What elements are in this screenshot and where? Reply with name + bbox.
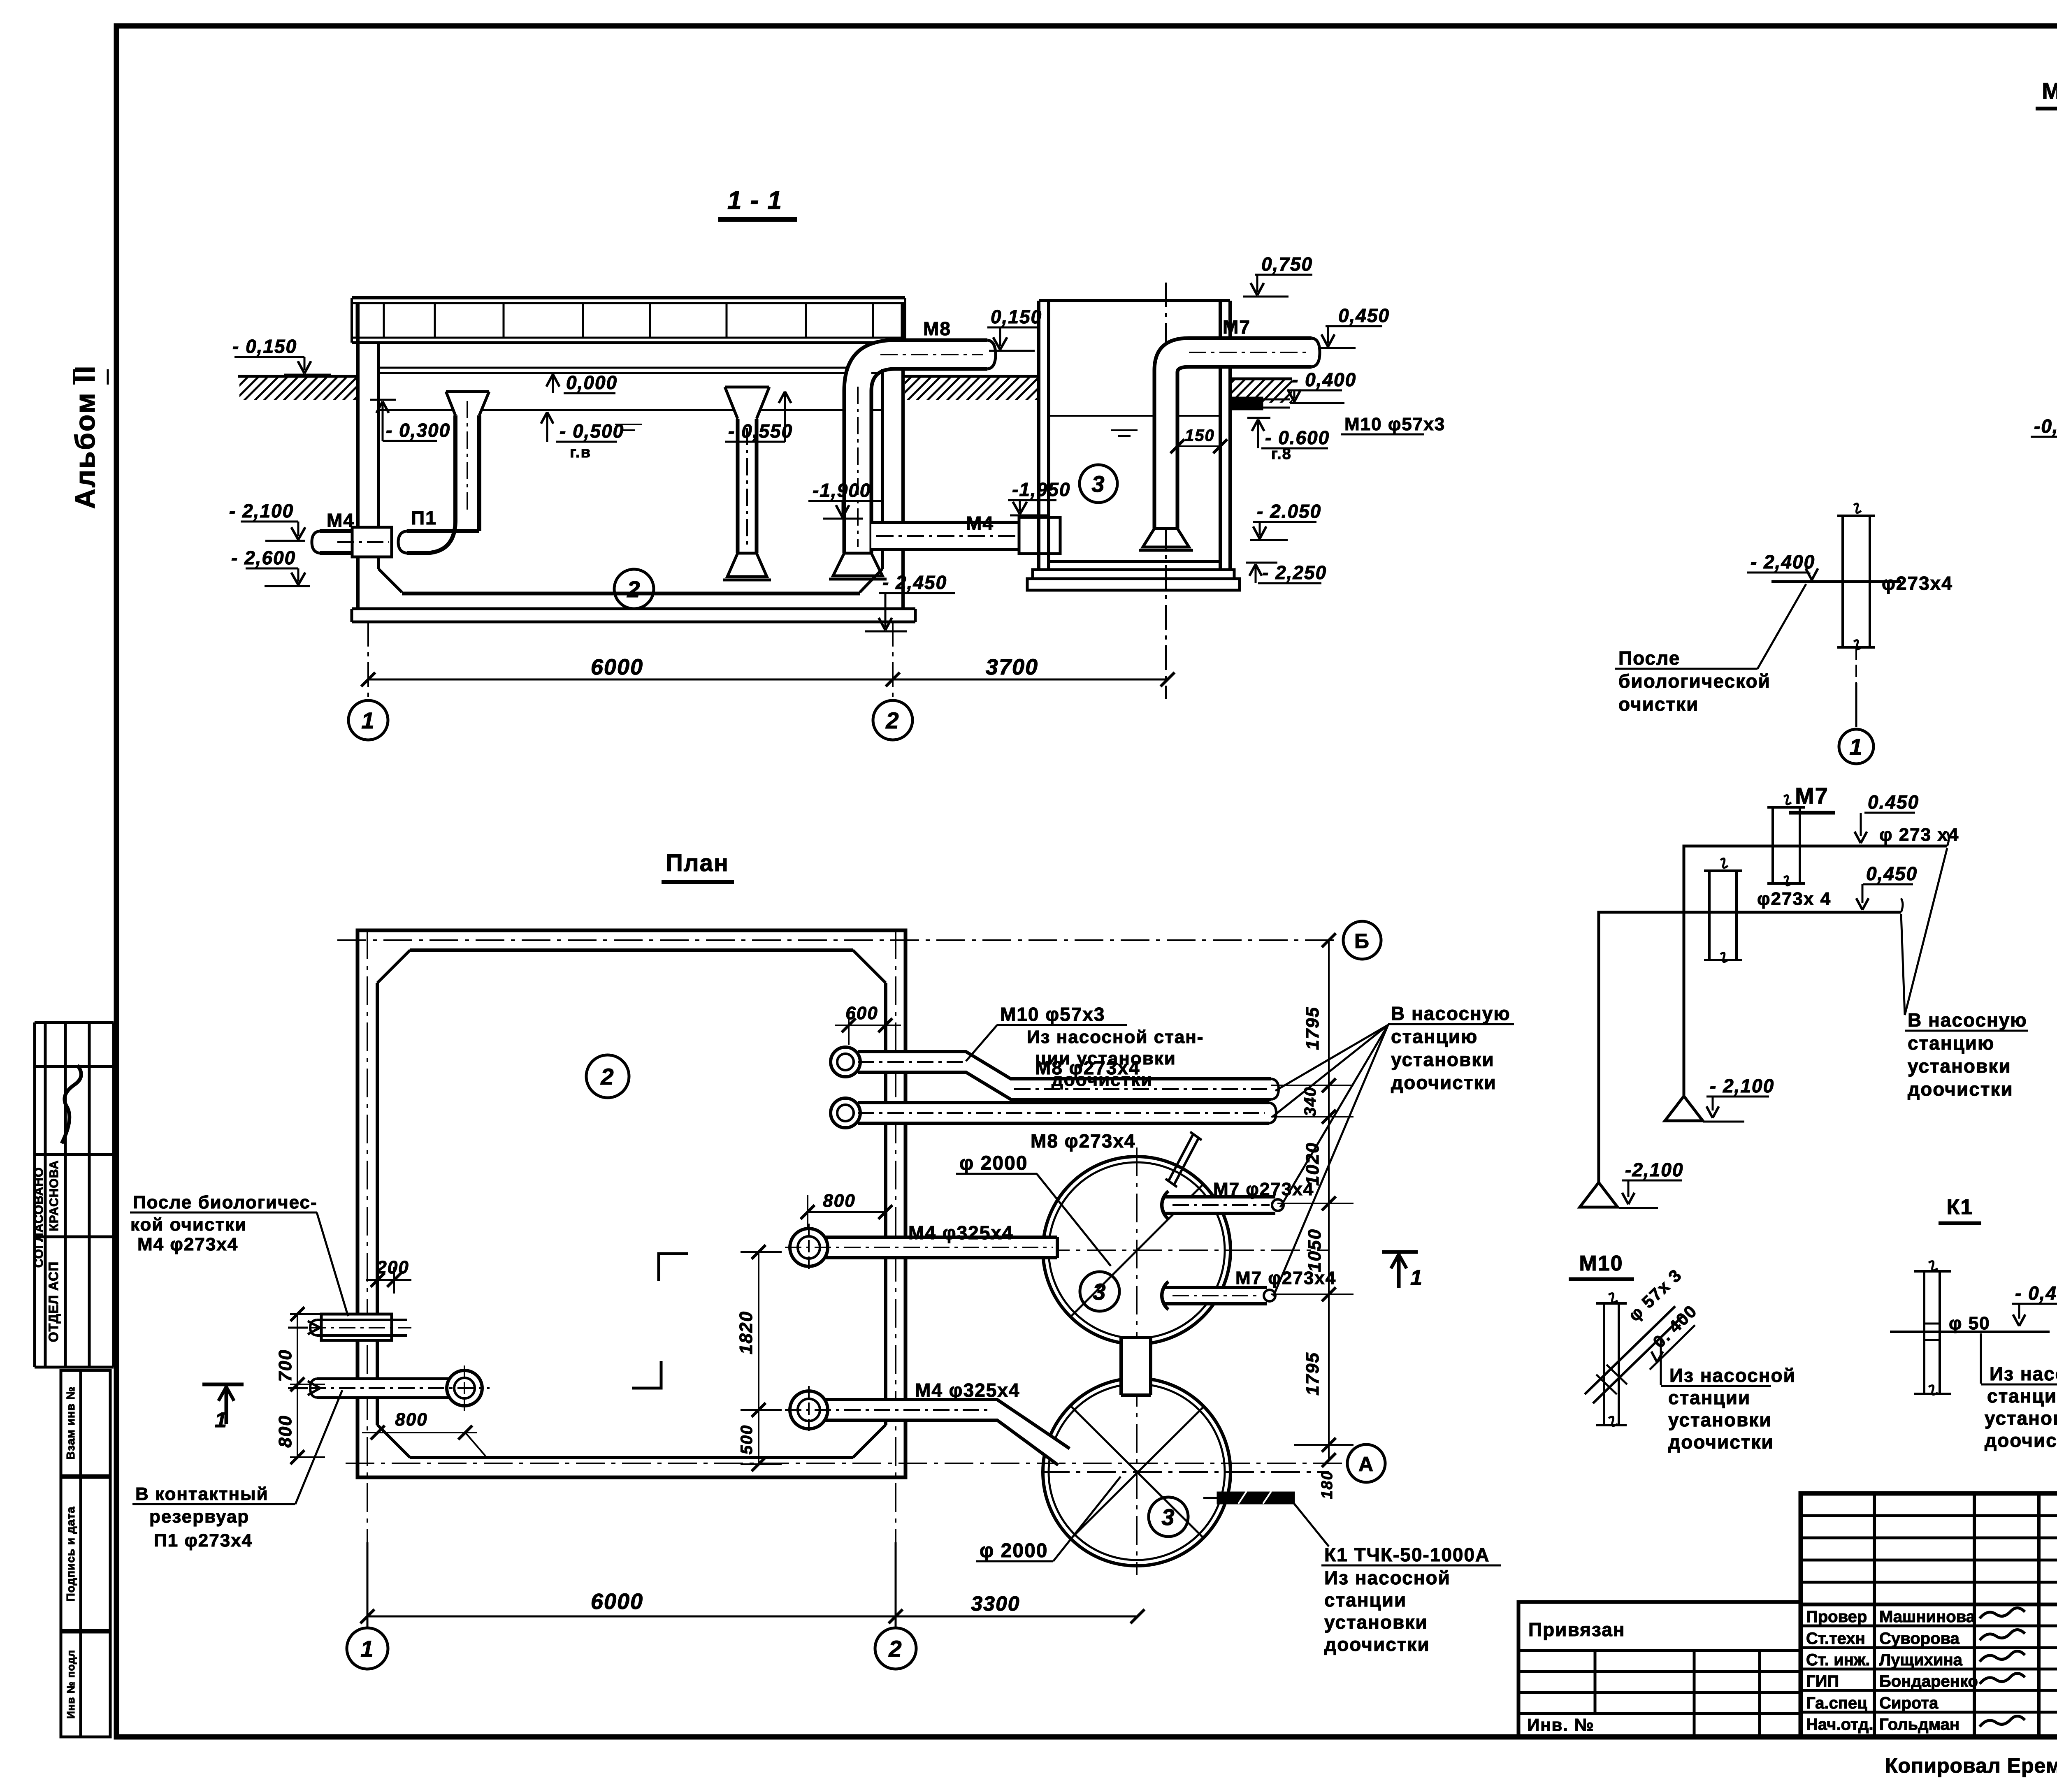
svg-text:0.450: 0.450 <box>1868 791 1919 813</box>
svg-text:500: 500 <box>738 1425 756 1455</box>
riser pipe М7 in tank 3 <box>1154 338 1312 529</box>
svg-text:Га.спец: Га.спец <box>1806 1694 1867 1712</box>
link to axis circle 1 <box>1855 647 1857 683</box>
svg-text:- 0,500: - 0,500 <box>560 420 624 442</box>
svg-text:После: После <box>1618 647 1680 669</box>
svg-text:М7: М7 <box>1223 316 1251 338</box>
svg-text:180: 180 <box>1319 1470 1336 1499</box>
short extension lines on right chain <box>1271 1085 1354 1086</box>
pipe М4 entering tank 2 at left <box>322 531 393 553</box>
section axis line 1 <box>367 622 369 699</box>
svg-text:М7: М7 <box>1795 783 1829 809</box>
svg-text:Сирота: Сирота <box>1879 1694 1939 1712</box>
svg-text:0,450: 0,450 <box>1338 305 1390 326</box>
upper empty rows of staff columns <box>1801 1514 2057 1517</box>
circled numeral 2 (plan tank 2) <box>586 1055 629 1098</box>
circled numeral 3 (plan lower tank) <box>1149 1497 1188 1537</box>
elbow ring М8 upper <box>831 1047 860 1077</box>
staff signatures scribbles <box>1980 1608 2025 1618</box>
dimension 800 (vertical) <box>297 1384 298 1457</box>
plan dimension line 6000 / 3300 <box>367 1616 1138 1618</box>
svg-text:800: 800 <box>275 1415 295 1447</box>
М7 inlet scheme (-2.400) horizontal pipe <box>1771 580 1901 583</box>
section axis circle 2 <box>873 700 912 740</box>
label Из насосной станции установки доочистки (М10) <box>1660 1340 1662 1385</box>
svg-text:1820: 1820 <box>736 1311 756 1354</box>
sidebar block Инв № подл <box>61 1632 110 1737</box>
plan tank 3 upper circle <box>1043 1157 1230 1344</box>
svg-text:- 2,600: - 2,600 <box>231 547 296 568</box>
section axis line 2 <box>892 622 894 699</box>
section axis circle 1 <box>348 700 388 740</box>
svg-text:1795: 1795 <box>1302 1352 1323 1396</box>
svg-text:П1: П1 <box>411 507 437 529</box>
svg-text:М4 φ325x4: М4 φ325x4 <box>915 1379 1020 1401</box>
svg-text:φ273x 4: φ273x 4 <box>1757 889 1831 909</box>
svg-text:1: 1 <box>361 707 375 733</box>
svg-text:2: 2 <box>627 576 641 602</box>
connecting channel between tanks 3 <box>1121 1338 1151 1395</box>
svg-text:- 0,300: - 0,300 <box>386 420 450 441</box>
sleeve on М7 top pipe <box>1771 807 1774 883</box>
full-width separators <box>1801 1603 2057 1607</box>
svg-text:- 0,400: - 0,400 <box>1292 369 1356 390</box>
plan tank 2 inner wall with chamfered corners <box>410 948 853 952</box>
dimension 700 (vertical) <box>297 1314 298 1384</box>
svg-text:1: 1 <box>360 1636 374 1662</box>
svg-text:доочистки: доочистки <box>1908 1078 2013 1100</box>
svg-text:6000: 6000 <box>591 1589 643 1614</box>
svg-text:600: 600 <box>845 1003 878 1023</box>
dimension 500 (vertical) <box>758 1410 759 1464</box>
pipe М8 lower (plan) <box>858 1103 1269 1123</box>
section dimension line 6000 / 3700 <box>368 679 1168 681</box>
pipe М7 lower (plan) <box>1160 1287 1267 1304</box>
staff row lines <box>1801 1625 2057 1627</box>
pipe М10 stub at tank 3 right wall <box>1231 398 1262 409</box>
svg-text:К1 ТЧК-50-1000А: К1 ТЧК-50-1000А <box>1324 1544 1490 1565</box>
svg-text:М8 φ273x4: М8 φ273x4 <box>1031 1130 1136 1152</box>
svg-text:0,750: 0,750 <box>1261 253 1313 275</box>
tank 2 floor with corner chamfers <box>378 569 402 592</box>
svg-text:КРАСНОВА: КРАСНОВА <box>47 1160 61 1231</box>
svg-text:-2,100: -2,100 <box>1625 1159 1683 1180</box>
svg-text:200: 200 <box>376 1257 409 1277</box>
svg-text:1 - 1: 1 - 1 <box>727 186 782 215</box>
sidebar block Взам инв № <box>61 1370 110 1476</box>
diffuser at bottom of М8 riser <box>833 553 882 576</box>
svg-text:М4 φ273x4: М4 φ273x4 <box>137 1234 238 1254</box>
svg-text:ОТДЕЛ АСП: ОТДЕЛ АСП <box>46 1261 61 1342</box>
funnel pipe М4 outlet (right) in tank 2 <box>725 387 769 553</box>
dimension 150 in tank 3 <box>1177 445 1220 447</box>
svg-text:0,150: 0,150 <box>991 306 1042 327</box>
svg-text:станцию: станцию <box>1908 1032 1994 1054</box>
svg-text:М8: М8 <box>923 318 951 339</box>
upper circle diagonal <box>1071 1184 1204 1316</box>
svg-text:кой очистки: кой очистки <box>130 1215 247 1235</box>
tank 2 right wall <box>901 303 905 609</box>
svg-text:установки: установки <box>1985 1407 2057 1429</box>
svg-text:Копировал Еремченко: Копировал Еремченко <box>1885 1754 2057 1777</box>
svg-text:После биологичес-: После биологичес- <box>133 1192 318 1212</box>
svg-text:А: А <box>1358 1453 1374 1476</box>
svg-text:М10: М10 <box>1579 1252 1623 1275</box>
svg-text:Инв № подл: Инв № подл <box>65 1650 77 1719</box>
ground line right of tank 3 <box>1229 378 1292 380</box>
tank 3 water line <box>1049 415 1220 417</box>
diffuser at bottom of М4 funnel pipe <box>727 553 767 577</box>
tank 3 centre line <box>1165 283 1167 699</box>
svg-text:2: 2 <box>600 1064 614 1090</box>
riser pipe М8 in tank 2 <box>844 340 987 553</box>
plan tank 3 lower circle <box>1043 1378 1230 1566</box>
svg-text:очистки: очистки <box>1618 693 1699 715</box>
svg-text:Суворова: Суворова <box>1879 1630 1960 1648</box>
ground line left of tank <box>238 375 357 378</box>
svg-text:ГИП: ГИП <box>1806 1672 1839 1690</box>
sidebar approval table (СОГЛАСОВАНО) <box>33 1022 36 1367</box>
svg-text:В контактный: В контактный <box>135 1484 269 1504</box>
svg-text:М10 φ57x3: М10 φ57x3 <box>1000 1004 1105 1025</box>
staff table verticals <box>1873 1493 1876 1737</box>
label Из насосной станции установки доочистки (К1) <box>1980 1333 1982 1384</box>
svg-text:доочистки: доочистки <box>1668 1431 1774 1453</box>
svg-text:- 2.050: - 2.050 <box>1257 501 1321 522</box>
signature scribble <box>62 1065 81 1143</box>
pipe М7 upper (plan) <box>1160 1197 1275 1213</box>
section cut mark 1 (right) <box>1382 1250 1418 1254</box>
svg-text:М4: М4 <box>2042 78 2057 104</box>
plan bottom wall centre line / axis А <box>346 1463 1346 1464</box>
tank 3 walls <box>1037 301 1040 570</box>
svg-text:г.8: г.8 <box>1271 445 1292 463</box>
section cut mark 1 (left) <box>202 1383 244 1386</box>
svg-text:установки: установки <box>1391 1049 1495 1070</box>
svg-text:М4: М4 <box>327 510 355 531</box>
tank 3 floor <box>1049 560 1220 563</box>
funnel at -2.100 (mid) <box>1665 1096 1703 1121</box>
svg-text:- 0,400: - 0,400 <box>2015 1282 2057 1304</box>
plan tank 3 vertical centre line <box>1136 1148 1138 1575</box>
svg-text:0,450: 0,450 <box>1866 863 1918 884</box>
axis circle А <box>1347 1444 1385 1482</box>
svg-text:3: 3 <box>1091 471 1105 497</box>
svg-text:- 0,150: - 0,150 <box>232 336 297 357</box>
svg-text:К1: К1 <box>1947 1195 1973 1219</box>
plan axis circle 2 <box>875 1628 916 1669</box>
svg-text:-1,900: -1,900 <box>813 480 871 501</box>
svg-text:Ст. инж.: Ст. инж. <box>1806 1651 1870 1669</box>
svg-text:установки: установки <box>1668 1409 1772 1430</box>
svg-text:станции: станции <box>1668 1387 1751 1408</box>
svg-text:800: 800 <box>823 1191 855 1211</box>
svg-text:2: 2 <box>885 707 899 733</box>
svg-text:установки: установки <box>1908 1055 2011 1077</box>
М10 scheme vertical pipe <box>1603 1303 1605 1425</box>
svg-text:φ 50: φ 50 <box>1949 1313 1990 1333</box>
svg-text:6000: 6000 <box>591 655 643 679</box>
pipe М4 to tank 3 (elevation -1.900) <box>871 522 1059 549</box>
svg-text:Провер: Провер <box>1806 1608 1867 1626</box>
svg-text:М4: М4 <box>966 512 994 534</box>
label К1 ТЧК-50-1000А with leader <box>1294 1503 1329 1546</box>
tank 2 cover slab <box>352 296 905 299</box>
plan left wall axis 1 <box>367 930 368 1542</box>
М7 scheme top pipe 0.450 <box>1684 846 1947 1097</box>
svg-text:В насосную: В насосную <box>1391 1003 1511 1024</box>
К1 pipe stub (plan) <box>1218 1493 1294 1503</box>
svg-text:- 2,100: - 2,100 <box>229 500 294 522</box>
elbow ring М4 lower <box>790 1391 828 1429</box>
svg-text:ции установки: ции установки <box>1035 1048 1176 1069</box>
svg-text:Взам инв №: Взам инв № <box>64 1386 77 1460</box>
inner corner mark upper <box>659 1254 688 1281</box>
svg-text:0,000: 0,000 <box>566 372 618 393</box>
pipe М10 slanted stub (plan) <box>1168 1134 1193 1181</box>
svg-text:- 2,250: - 2,250 <box>1262 562 1327 583</box>
plan wall centre line / axis Б <box>337 939 1339 941</box>
elbow ring М8 lower <box>831 1098 860 1128</box>
svg-text:-1,950: -1,950 <box>1012 479 1070 500</box>
К1 scheme vertical sleeve <box>1923 1271 1925 1394</box>
small table ПРИВЯЗАН <box>1518 1602 1801 1737</box>
svg-text:биологической: биологической <box>1618 670 1771 692</box>
М10 slanted floor-crossing lines <box>1585 1306 1675 1394</box>
svg-text:700: 700 <box>275 1349 295 1382</box>
svg-text:СОГЛАСОВАНО: СОГЛАСОВАНО <box>32 1167 46 1268</box>
circled numeral 3 (plan upper tank) <box>1080 1272 1119 1311</box>
tank 2 left wall <box>356 303 360 609</box>
svg-text:- 2,100: - 2,100 <box>1710 1075 1774 1097</box>
svg-text:- 2,450: - 2,450 <box>882 572 947 593</box>
funnel pipe П1 in tank 2 <box>446 392 489 531</box>
ground line between tanks <box>904 375 1039 378</box>
tank 3 top edge <box>1039 299 1230 302</box>
lower circle diagonals <box>1071 1407 1204 1538</box>
tank 2 base slab <box>352 607 915 610</box>
svg-text:150: 150 <box>1185 427 1215 445</box>
circled numeral 3 (tank 3) <box>1080 465 1117 503</box>
svg-text:резервуар: резервуар <box>149 1507 249 1527</box>
svg-text:В насосную: В насосную <box>1908 1009 2027 1031</box>
pipe М4 lower slanted (plan) <box>822 1400 1070 1465</box>
svg-text:1: 1 <box>1410 1266 1423 1290</box>
svg-text:φ 2000: φ 2000 <box>959 1152 1028 1174</box>
М7 scheme second pipe 0.450 <box>1599 912 1901 1183</box>
svg-text:φ273x4: φ273x4 <box>1882 573 1953 594</box>
svg-text:2: 2 <box>888 1636 902 1662</box>
svg-text:доочистки: доочистки <box>1052 1070 1153 1090</box>
svg-text:М4 φ325x4: М4 φ325x4 <box>908 1222 1014 1243</box>
svg-text:доочистки: доочистки <box>1985 1430 2057 1451</box>
svg-text:Из насосной: Из насосной <box>1990 1363 2057 1384</box>
pipe М4 stub through plan left wall <box>321 1314 392 1340</box>
dimension 1820 (vertical) <box>758 1252 759 1410</box>
svg-text:Лущихина: Лущихина <box>1879 1651 1963 1669</box>
svg-text:Машнинова: Машнинова <box>1879 1608 1976 1626</box>
svg-text:Бондаренко: Бондаренко <box>1879 1672 1978 1690</box>
diffuser at bottom of М7 riser <box>1143 529 1189 547</box>
svg-text:М7 φ273x4: М7 φ273x4 <box>1213 1179 1314 1199</box>
svg-text:φ 2000: φ 2000 <box>980 1540 1048 1562</box>
svg-text:3: 3 <box>1161 1504 1175 1530</box>
svg-text:Б: Б <box>1354 930 1370 953</box>
axis circle Б <box>1343 921 1381 959</box>
title block outer box <box>1801 1493 2057 1737</box>
svg-text:М10 φ57x3: М10 φ57x3 <box>1344 414 1445 434</box>
pipe П1 stub through plan left wall <box>322 1379 449 1398</box>
svg-text:-0,550: -0,550 <box>2034 415 2057 437</box>
sidebar block Подпись и дата <box>61 1477 110 1630</box>
tank 3 base slabs <box>1033 570 1234 579</box>
svg-text:Из насосной: Из насосной <box>1669 1365 1796 1386</box>
tank 2 water line <box>378 409 882 411</box>
plan axis circle 1 <box>347 1628 388 1669</box>
svg-text:800: 800 <box>395 1409 427 1430</box>
svg-text:Гольдман: Гольдман <box>1879 1715 1959 1734</box>
svg-text:3700: 3700 <box>986 655 1038 679</box>
svg-text:Альбом II: Альбом II <box>70 365 101 509</box>
sleeve on М7 second pipe <box>1708 871 1711 960</box>
svg-text:1: 1 <box>215 1408 228 1432</box>
plan tank 3 horizontal centre lines <box>1041 1250 1329 1251</box>
pipe М8 upper (plan) <box>858 1052 1271 1099</box>
svg-text:Ст.техн: Ст.техн <box>1806 1630 1865 1648</box>
sleeve at tank 3 wall for М4 <box>1019 517 1060 554</box>
svg-text:φ 273 x4: φ 273 x4 <box>1879 825 1959 845</box>
svg-text:Привязан: Привязан <box>1528 1619 1625 1640</box>
right side dimension chain 1795/340/1020/1050/1795/180 <box>1328 940 1330 1460</box>
funnel at -2.100 (left) <box>1580 1182 1618 1207</box>
dimension 800 (М4 middle) <box>808 1211 885 1213</box>
svg-text:1: 1 <box>1849 734 1863 760</box>
svg-text:станции: станции <box>1987 1385 2057 1407</box>
elbow ring П1 <box>447 1370 482 1406</box>
svg-text:Из насосной стан-: Из насосной стан- <box>1027 1027 1204 1047</box>
svg-text:станции: станции <box>1324 1589 1407 1611</box>
circled numeral 2 (tank 2) <box>614 569 654 609</box>
sleeve at wall for М4 <box>352 527 392 557</box>
svg-text:3300: 3300 <box>971 1592 1020 1615</box>
svg-text:Инв. №: Инв. № <box>1527 1715 1595 1734</box>
svg-text:П1 φ273x4: П1 φ273x4 <box>154 1530 253 1551</box>
leaders to В насосную text (М7 scheme) <box>1905 848 1947 1015</box>
К1 scheme horizontal pipe φ50 <box>1890 1331 2050 1333</box>
plan right wall axis 2 <box>895 930 896 1542</box>
svg-text:станцию: станцию <box>1391 1026 1478 1047</box>
svg-text:Из насосной: Из насосной <box>1324 1567 1451 1588</box>
svg-text:Нач.отд.: Нач.отд. <box>1806 1715 1873 1734</box>
sleeve on М7 inlet <box>1841 516 1844 647</box>
svg-text:установки: установки <box>1324 1611 1428 1633</box>
svg-text:г.в: г.в <box>570 444 591 461</box>
tank 2 ceiling lines <box>378 367 882 369</box>
svg-text:3: 3 <box>1093 1279 1106 1305</box>
svg-text:1795: 1795 <box>1302 1006 1323 1050</box>
svg-text:доочистки: доочистки <box>1391 1072 1497 1093</box>
svg-text:Подпись и дата: Подпись и дата <box>64 1507 77 1602</box>
plan axis extensions to circles <box>367 1542 369 1627</box>
svg-text:- 0,550: - 0,550 <box>728 420 793 442</box>
elbow ring М4 middle <box>790 1229 828 1266</box>
svg-text:1050: 1050 <box>1305 1229 1325 1272</box>
plan tank 2 outer wall <box>358 930 905 1477</box>
svg-text:План: План <box>666 850 729 876</box>
svg-text:доочистки: доочистки <box>1324 1634 1430 1655</box>
pipe М4 middle (plan) <box>822 1237 1057 1258</box>
